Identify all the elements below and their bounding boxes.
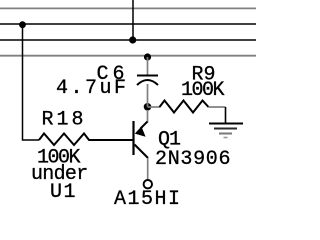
svg-text:2N3906: 2N3906 — [155, 148, 231, 171]
svg-text:4.7uF: 4.7uF — [56, 77, 129, 100]
svg-text:R18: R18 — [42, 109, 87, 132]
svg-text:U1: U1 — [50, 181, 77, 204]
svg-text:100K: 100K — [181, 79, 225, 102]
svg-text:A15HI: A15HI — [114, 188, 182, 209]
